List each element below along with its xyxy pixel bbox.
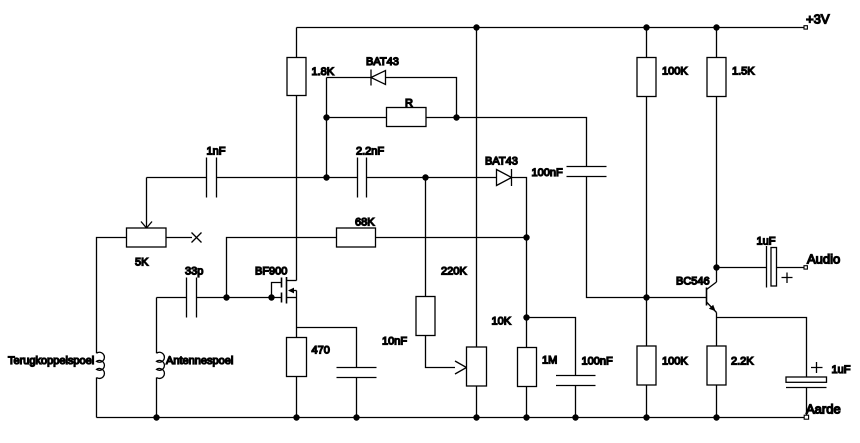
- node junction rail / coil2: [153, 414, 159, 420]
- wire collector to output cap: [717, 267, 767, 269]
- wire 5K right terminal to open end: [166, 237, 192, 239]
- svg-text:5K: 5K: [135, 257, 149, 269]
- node junction gate row / gate2 jog: [268, 294, 274, 300]
- svg-text:R: R: [405, 98, 413, 110]
- node junction base row / 100K divider: [643, 294, 649, 300]
- svg-text:1.8K: 1.8K: [312, 66, 335, 78]
- node Aarde terminal square: [804, 415, 808, 419]
- node junction top rail / 100K: [643, 24, 649, 30]
- wire x476 line from rail down to pot: [476, 28, 478, 348]
- potentiometer 5K body: [127, 228, 167, 247]
- wire antenna coil top to 33p: [157, 297, 187, 299]
- node no-connect X mark: [192, 233, 202, 243]
- svg-text:33p: 33p: [185, 266, 203, 278]
- node junction rail / 100nF: [572, 414, 578, 420]
- wire pot bottom to rail: [476, 386, 478, 418]
- resistor 1.8K body: [287, 58, 306, 96]
- wire 1.8K bottom down to BF900 drain: [296, 96, 298, 281]
- wire 1nF to 2.2nF segment: [217, 177, 358, 179]
- wire ground bottom rail: [97, 417, 805, 419]
- svg-text:1uF: 1uF: [757, 236, 776, 248]
- wire R row left segment: [327, 117, 387, 119]
- potentiometer 10K body: [467, 347, 487, 386]
- wire 1.5K from rail: [716, 28, 718, 58]
- resistor 2.2K body: [707, 346, 726, 385]
- polarity plus (audio cap): [782, 273, 793, 284]
- svg-text:100K: 100K: [662, 356, 688, 368]
- wire 220K bottom to pot wiper arrow: [426, 336, 456, 368]
- resistor 470 body: [287, 338, 307, 377]
- wire 100K bottom to rail: [646, 385, 648, 418]
- node junction 1nF row / x326: [323, 174, 329, 180]
- svg-text:BF900: BF900: [255, 266, 287, 278]
- wire x526 vertical to 1M: [526, 238, 528, 348]
- resistor 100K (bottom) body: [637, 346, 656, 385]
- wire 33p to BF900 gate row: [197, 297, 282, 299]
- svg-text:Terugkoppelspoel: Terugkoppelspoel: [8, 355, 94, 367]
- node junction rail / 10nF: [353, 414, 359, 420]
- svg-text:220K: 220K: [441, 266, 467, 278]
- wire 10nF bottom to rail: [356, 378, 358, 418]
- wire 100K top bottom to base row: [646, 97, 648, 298]
- diode D2 BAT43 (pointing right, cathode bar right): [497, 169, 512, 186]
- BC546 emitter arrowhead: [709, 305, 716, 312]
- svg-text:Aarde: Aarde: [806, 402, 841, 417]
- node junction gate row / 68K branch: [223, 294, 229, 300]
- wire 5K left terminal to left branch: [97, 238, 127, 354]
- svg-text:470: 470: [312, 345, 330, 357]
- wire diode D1 anode row: [327, 77, 372, 79]
- svg-text:BAT43: BAT43: [366, 56, 399, 68]
- wire D1 cathode to corner and down to R row: [386, 78, 457, 118]
- wire coil2 bottom to ground rail: [156, 378, 158, 418]
- transistor Q1 BF900 gate bars: [281, 278, 283, 303]
- resistor 100K (top) body: [637, 58, 656, 97]
- svg-text:1nF: 1nF: [207, 146, 226, 158]
- capacitor 33p plates: [187, 278, 197, 318]
- svg-text:10K: 10K: [492, 316, 512, 328]
- node junction x326/R row: [323, 114, 329, 120]
- svg-text:10nF: 10nF: [382, 336, 407, 348]
- svg-text:+3V: +3V: [806, 12, 830, 27]
- capacitor 100nF (top) plates: [567, 167, 607, 177]
- node junction 2.2nF row / 220K: [422, 174, 428, 180]
- inductor Antennespoel: [157, 352, 165, 378]
- capacitor 1nF plates: [207, 158, 217, 198]
- inductor Terugkoppelspoel: [97, 352, 105, 378]
- node junction top rail / 1.5K: [713, 24, 719, 30]
- resistor 1.5K body: [707, 58, 726, 97]
- node junction rail / 100K: [643, 414, 649, 420]
- node junction collector / audio out: [713, 264, 719, 270]
- node junction top rail / 476 line: [473, 24, 479, 30]
- wire collector vertical into BJT: [716, 268, 718, 283]
- capacitor 100nF (bottom) plates: [556, 376, 596, 386]
- wire 100K (top) from rail: [646, 28, 648, 58]
- node junction rail / 2.2K: [713, 414, 719, 420]
- wire 1M bottom to rail: [526, 387, 528, 418]
- wire emitter vertical to 2.2K: [716, 313, 718, 347]
- resistor 220K body: [416, 297, 435, 336]
- wire top +3V rail: [297, 27, 804, 29]
- node junction R row / D1 branch: [453, 114, 459, 120]
- wire emitter branch to bottom 1uF: [717, 318, 807, 378]
- node junction 1M top / 100nF branch: [523, 314, 529, 320]
- svg-text:1M: 1M: [542, 355, 557, 367]
- wire bottom 1uF to Aarde: [806, 388, 808, 416]
- node junction rail / pot: [473, 414, 479, 420]
- svg-text:BAT43: BAT43: [485, 156, 518, 168]
- transistor Q1 BF900 channel bar: [286, 277, 288, 304]
- wire 470 bottom to rail: [296, 377, 298, 418]
- wire 2.2nF to diode D2: [367, 177, 497, 179]
- wiper arrowhead on 5K: [141, 222, 152, 229]
- wire 68K row left vertical to gate row: [227, 238, 337, 298]
- svg-text:2.2nF: 2.2nF: [356, 146, 384, 158]
- wire source branch to 10nF: [297, 328, 357, 368]
- BF900 substrate arrowhead: [288, 288, 294, 294]
- BC546 collector diagonal: [707, 282, 717, 290]
- capacitor 10nF plates: [337, 368, 377, 378]
- wire cap to Audio terminal: [777, 267, 804, 269]
- wire 68K right to junction x526: [376, 237, 527, 239]
- wire divider down to 100K bottom: [646, 298, 648, 347]
- wire 220K top vertical from 2.2nF row: [425, 178, 427, 297]
- wire 1.5K bottom to collector node: [716, 97, 718, 268]
- wire from rail down to 1.8K top: [296, 28, 298, 58]
- wire 100nF bottom to rail: [575, 386, 577, 418]
- capacitor C out 1uF plates (line + rect): [766, 246, 768, 288]
- node junction rail / 1M: [523, 414, 529, 420]
- svg-text:100nF: 100nF: [582, 356, 613, 368]
- resistor 1M body: [518, 348, 537, 387]
- svg-text:1.5K: 1.5K: [732, 66, 755, 78]
- svg-text:2.2K: 2.2K: [731, 356, 754, 368]
- svg-text:Audio: Audio: [807, 252, 840, 267]
- capacitor C2 1uF plates (rect + line): [786, 377, 827, 382]
- wire R row right segment to 100nF drop: [426, 118, 587, 167]
- node junction rail / 470: [293, 414, 299, 420]
- wire 100nF bottom down to base row corner: [587, 177, 707, 298]
- wire gate2 jog: [272, 283, 282, 298]
- svg-text:100K: 100K: [662, 66, 688, 78]
- svg-text:68K: 68K: [355, 217, 375, 229]
- node +3V terminal square: [804, 26, 807, 29]
- wire 2.2K bottom to rail: [716, 385, 718, 418]
- wire coil1 bottom to ground rail corner: [96, 378, 98, 418]
- wire BF900 substrate arrow tail: [290, 290, 297, 292]
- transistor Q2 BC546 base bar: [706, 288, 708, 306]
- wire BF900 drain stub: [287, 280, 297, 282]
- polarity plus (bottom 1uF): [811, 362, 823, 373]
- wire antenna coil vertical: [156, 298, 158, 354]
- node Audio terminal square: [804, 266, 807, 269]
- wire 1nF row left segment from 5K wiper: [147, 177, 207, 179]
- wire diode row left vertical x=326.5: [326, 78, 328, 178]
- svg-text:Antennespoel: Antennespoel: [166, 355, 233, 367]
- wire D2 cathode to corner down to 68K junction: [512, 178, 527, 238]
- wire branch to 100nF (bottom): [527, 318, 576, 376]
- svg-text:100nF: 100nF: [532, 167, 563, 179]
- diode D1 BAT43 (pointing left, cathode bar left): [371, 70, 386, 86]
- BC546 emitter diagonal: [707, 302, 717, 313]
- wire BF900 source stub: [287, 297, 297, 299]
- resistor R body: [387, 108, 427, 127]
- wire 5K wiper from 1nF row down: [146, 178, 148, 228]
- svg-text:BC546: BC546: [676, 276, 710, 288]
- node junction 68K / D2 / 1M net: [523, 234, 529, 240]
- capacitor 2.2nF plates: [358, 158, 367, 198]
- wiper arrowhead on 10K pot: [455, 361, 467, 374]
- svg-text:1uF: 1uF: [832, 364, 851, 376]
- resistor 68K body: [337, 228, 376, 247]
- wire BF900 source vertical down to 470: [296, 291, 298, 338]
